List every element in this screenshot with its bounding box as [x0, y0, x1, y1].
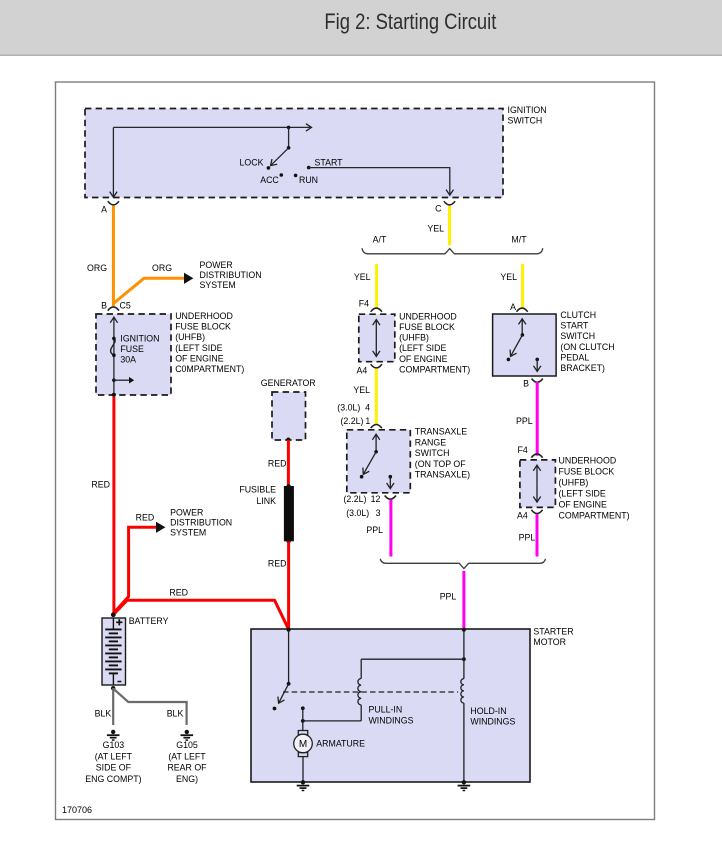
svg-text:UNDERHOOD: UNDERHOOD: [559, 456, 617, 466]
svg-text:PPL: PPL: [440, 591, 457, 601]
svg-text:IGNITION: IGNITION: [508, 105, 547, 115]
svg-text:POWER: POWER: [170, 508, 203, 518]
svg-text:(UHFB): (UHFB): [399, 333, 429, 343]
svg-text:BLK: BLK: [167, 709, 184, 719]
svg-text:ENG): ENG): [176, 774, 198, 784]
svg-text:12: 12: [371, 494, 381, 504]
svg-text:(AT LEFT: (AT LEFT: [95, 751, 133, 761]
svg-text:BLK: BLK: [95, 709, 112, 719]
svg-text:SYSTEM: SYSTEM: [200, 280, 236, 290]
svg-text:PPL: PPL: [516, 416, 533, 426]
svg-text:C0MPARTMENT): C0MPARTMENT): [175, 364, 244, 374]
svg-text:G103: G103: [103, 740, 125, 750]
svg-text:WINDINGS: WINDINGS: [369, 715, 414, 725]
svg-text:A/T: A/T: [373, 235, 387, 245]
svg-text:3: 3: [376, 508, 381, 518]
svg-text:ENG COMPT): ENG COMPT): [85, 774, 141, 784]
svg-text:SWITCH: SWITCH: [415, 448, 450, 458]
svg-text:C5: C5: [120, 300, 131, 310]
svg-text:BATTERY: BATTERY: [129, 616, 169, 626]
svg-text:(3.0L): (3.0L): [346, 508, 369, 518]
svg-text:ACC: ACC: [260, 175, 279, 185]
svg-text:START: START: [315, 157, 344, 167]
svg-text:M/T: M/T: [511, 235, 527, 245]
svg-text:OF ENGINE: OF ENGINE: [559, 500, 608, 510]
svg-text:FUSE BLOCK: FUSE BLOCK: [559, 467, 615, 477]
svg-text:YEL: YEL: [353, 385, 370, 395]
svg-text:M: M: [299, 739, 307, 750]
svg-text:RED: RED: [136, 513, 155, 523]
svg-text:TRANSAXLE): TRANSAXLE): [415, 470, 470, 480]
svg-text:COMPARTMENT): COMPARTMENT): [399, 364, 470, 374]
svg-text:OF ENGINE: OF ENGINE: [399, 354, 448, 364]
svg-text:REAR OF: REAR OF: [167, 763, 207, 773]
svg-text:SIDE OF: SIDE OF: [96, 763, 132, 773]
svg-text:STARTER: STARTER: [533, 626, 573, 636]
svg-text:UNDERHOOD: UNDERHOOD: [175, 311, 233, 321]
svg-text:A4: A4: [517, 511, 528, 521]
svg-text:PPL: PPL: [519, 532, 536, 542]
svg-text:YEL: YEL: [500, 272, 517, 282]
svg-text:COMPARTMENT): COMPARTMENT): [559, 511, 630, 521]
svg-text:OF ENGINE: OF ENGINE: [175, 353, 224, 363]
svg-text:170706: 170706: [62, 805, 92, 815]
svg-text:PPL: PPL: [366, 525, 383, 535]
svg-text:30A: 30A: [120, 355, 136, 365]
svg-text:SYSTEM: SYSTEM: [170, 527, 206, 537]
svg-text:G105: G105: [176, 740, 198, 750]
svg-text:(LEFT SIDE: (LEFT SIDE: [559, 489, 606, 499]
svg-text:Fig 2: Starting Circuit: Fig 2: Starting Circuit: [324, 9, 497, 34]
svg-text:RED: RED: [268, 459, 287, 469]
svg-text:POWER: POWER: [200, 260, 233, 270]
svg-text:START: START: [560, 321, 589, 331]
svg-text:(UHFB): (UHFB): [175, 332, 205, 342]
svg-text:(2.2L): (2.2L): [341, 416, 364, 426]
svg-text:SWITCH: SWITCH: [560, 331, 595, 341]
svg-text:FUSE BLOCK: FUSE BLOCK: [175, 322, 231, 332]
svg-text:1: 1: [365, 416, 370, 426]
svg-text:A: A: [510, 302, 516, 312]
svg-text:DISTRIBUTION: DISTRIBUTION: [170, 517, 232, 527]
svg-text:(ON CLUTCH: (ON CLUTCH: [560, 342, 614, 352]
svg-text:(AT LEFT: (AT LEFT: [168, 751, 206, 761]
svg-text:WINDINGS: WINDINGS: [470, 717, 515, 727]
svg-text:4: 4: [365, 403, 370, 413]
svg-text:A: A: [101, 205, 107, 215]
svg-text:BRACKET): BRACKET): [560, 363, 605, 373]
svg-text:RANGE: RANGE: [415, 437, 446, 447]
svg-text:DISTRIBUTION: DISTRIBUTION: [200, 270, 262, 280]
svg-text:IGNITION: IGNITION: [120, 333, 159, 343]
svg-text:(UHFB): (UHFB): [559, 478, 589, 488]
svg-text:F4: F4: [518, 445, 528, 455]
svg-text:HOLD-IN: HOLD-IN: [470, 706, 506, 716]
svg-text:UNDERHOOD: UNDERHOOD: [399, 311, 457, 321]
svg-text:B: B: [101, 300, 107, 310]
svg-text:GENERATOR: GENERATOR: [261, 378, 316, 388]
svg-text:YEL: YEL: [427, 224, 444, 234]
svg-text:FUSE: FUSE: [120, 344, 144, 354]
svg-text:F4: F4: [359, 299, 369, 309]
svg-text:(LEFT SIDE: (LEFT SIDE: [399, 343, 446, 353]
svg-text:SWITCH: SWITCH: [508, 115, 543, 125]
svg-text:RED: RED: [268, 558, 287, 568]
svg-text:MOTOR: MOTOR: [533, 637, 566, 647]
svg-text:ARMATURE: ARMATURE: [316, 738, 365, 748]
svg-text:FUSE BLOCK: FUSE BLOCK: [399, 322, 455, 332]
svg-text:ORG: ORG: [152, 263, 172, 273]
svg-text:RED: RED: [169, 588, 188, 598]
svg-text:RUN: RUN: [299, 175, 318, 185]
svg-text:C: C: [435, 204, 442, 214]
svg-text:TRANSAXLE: TRANSAXLE: [415, 427, 467, 437]
svg-text:CLUTCH: CLUTCH: [560, 310, 596, 320]
svg-text:ORG: ORG: [87, 263, 107, 273]
svg-text:YEL: YEL: [354, 272, 371, 282]
svg-text:LINK: LINK: [256, 496, 276, 506]
svg-text:RED: RED: [91, 479, 110, 489]
svg-text:A4: A4: [357, 365, 368, 375]
svg-text:LOCK: LOCK: [240, 157, 264, 167]
svg-text:PULL-IN: PULL-IN: [369, 705, 403, 715]
svg-text:(2.2L): (2.2L): [344, 494, 367, 504]
svg-text:FUSIBLE: FUSIBLE: [239, 484, 276, 494]
svg-text:(LEFT SIDE: (LEFT SIDE: [175, 343, 222, 353]
svg-text:B: B: [523, 378, 529, 388]
svg-text:(3.0L): (3.0L): [337, 403, 360, 413]
svg-text:(ON TOP OF: (ON TOP OF: [415, 459, 466, 469]
svg-text:PEDAL: PEDAL: [560, 352, 589, 362]
